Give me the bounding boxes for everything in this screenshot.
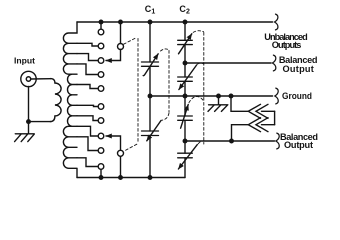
brace balanced output upper terminal xyxy=(272,55,275,71)
wire contact10 stem to bottom rail xyxy=(100,169,102,177)
svg-text:Ground: Ground xyxy=(282,91,312,101)
label Balanced Output upper xyxy=(279,55,318,74)
wire middle ground rail xyxy=(150,95,273,97)
switch S1a arm xyxy=(106,50,121,61)
node balanced lower rail C2 xyxy=(183,139,188,144)
capacitor C2 bottom section wires xyxy=(184,141,186,178)
capacitor C2 upper plates xyxy=(178,40,193,44)
capacitor C2 third arrow xyxy=(181,105,189,129)
label Balanced Output lower xyxy=(280,132,318,150)
switch contact 9 xyxy=(98,148,104,154)
wire contact1 stem to top rail xyxy=(100,22,102,29)
label C2 xyxy=(179,4,190,16)
switch contact 10 xyxy=(98,164,104,170)
capacitor C1 upper section wires xyxy=(149,22,151,96)
connector clip top pair xyxy=(248,104,268,118)
node bottom rail switch stem xyxy=(118,175,123,180)
switch contact 2 xyxy=(98,43,104,49)
brace unbalanced outputs terminal xyxy=(275,14,278,30)
wire top clip right stub xyxy=(262,110,275,112)
capacitor C2 upper section wires xyxy=(184,22,186,63)
input connector J1 xyxy=(21,71,36,86)
node mid rail clip stem xyxy=(229,94,234,99)
label C1 xyxy=(145,4,156,16)
switch S1a pivot xyxy=(118,44,124,50)
switch S1b pivot xyxy=(118,150,124,156)
wire top rail xyxy=(77,21,273,23)
node mid rail C1 xyxy=(148,94,153,99)
tap wire turn5 to contact5 xyxy=(77,85,98,89)
ground G2 xyxy=(208,96,228,111)
wire bottom clip to balanced rail xyxy=(232,125,249,141)
node top rail C2 xyxy=(183,20,188,25)
switch contact 7 xyxy=(98,118,104,124)
node balanced upper rail C2 xyxy=(183,61,188,66)
wire input center to primary top xyxy=(31,78,51,80)
capacitor C2 middle arrow xyxy=(179,65,197,90)
switch S1b arm xyxy=(106,136,121,150)
svg-text:Input: Input xyxy=(14,55,35,65)
brace ground terminal xyxy=(275,88,278,104)
wire clip bracket xyxy=(274,111,276,124)
wire bottom clip right stub xyxy=(262,124,275,126)
node balanced lower rail clip stem xyxy=(229,139,234,144)
node top rail contact1 xyxy=(99,20,104,25)
tap wire turn1 to contact2 xyxy=(77,43,98,46)
capacitor C2 middle section wires xyxy=(184,63,186,96)
main tapped coil L1 xyxy=(63,22,77,178)
svg-text:1: 1 xyxy=(151,9,155,16)
switch S1a wiper stem xyxy=(120,22,122,44)
wire bottom rail xyxy=(77,177,185,179)
node top rail C1 xyxy=(148,20,153,25)
capacitor C1 lower plates xyxy=(142,131,159,136)
wire ground rail to top clip xyxy=(231,96,248,111)
svg-text:Output: Output xyxy=(284,140,313,150)
switch contact 4 xyxy=(98,72,104,78)
capacitor C1 lower arrow xyxy=(147,121,161,141)
capacitor C2 third section wires xyxy=(184,96,186,141)
wire balanced output upper rail xyxy=(185,62,271,64)
label Unbalanced Outputs xyxy=(264,32,307,50)
node mid rail ground stem xyxy=(216,94,221,99)
brace balanced output lower terminal xyxy=(276,133,279,149)
dashed gang link C1 sections xyxy=(161,49,170,120)
svg-text:Output: Output xyxy=(283,64,314,74)
node bottom rail C1 xyxy=(148,175,153,180)
capacitor C2 middle plates xyxy=(178,77,193,81)
tap wire turn3 to contact4 xyxy=(77,64,98,75)
dashed gang link C2 sections xyxy=(189,31,204,144)
capacitor C2 upper arrow xyxy=(179,34,192,54)
switch contact 6 xyxy=(98,104,104,110)
switch contact 5 xyxy=(98,86,104,92)
tap wire turn9 to contact8 xyxy=(77,126,98,136)
node input ground junction xyxy=(26,119,31,124)
node top rail switch stem xyxy=(118,20,123,25)
node bottom rail contact10 xyxy=(99,175,104,180)
svg-text:2: 2 xyxy=(186,9,190,16)
switch contact 1 xyxy=(98,29,104,35)
wire balanced output lower rail xyxy=(185,140,275,142)
wire input shield down xyxy=(28,86,30,121)
tap wire turn10 to contact9 xyxy=(77,137,98,151)
capacitor C2 third plates xyxy=(178,116,193,120)
capacitor C2 bottom arrow xyxy=(178,145,197,169)
capacitor C1 upper plates xyxy=(142,62,159,66)
tap wire turn12 to contact10 xyxy=(77,158,98,167)
node mid rail C2 xyxy=(183,94,188,99)
svg-text:Outputs: Outputs xyxy=(272,40,302,50)
switch contact 3 xyxy=(98,58,104,64)
tap wire turn7 to contact6 xyxy=(77,105,98,106)
capacitor C1 lower section wires xyxy=(149,96,151,178)
dashed gang link switch shafts xyxy=(124,37,138,151)
switch contact 8 xyxy=(98,133,104,139)
wire primary bottom to input shield junction xyxy=(29,121,51,123)
tap wire turn2 to contact3 xyxy=(77,54,98,61)
connector clip bottom pair xyxy=(248,118,268,132)
primary coil L1a xyxy=(50,79,61,122)
switch S1b wiper stem xyxy=(120,156,122,177)
capacitor C2 bottom plates xyxy=(178,153,193,158)
capacitor C1 upper arrow xyxy=(143,54,158,76)
tap wire turn8 to contact7 xyxy=(77,116,98,121)
ground G1 xyxy=(15,122,35,142)
